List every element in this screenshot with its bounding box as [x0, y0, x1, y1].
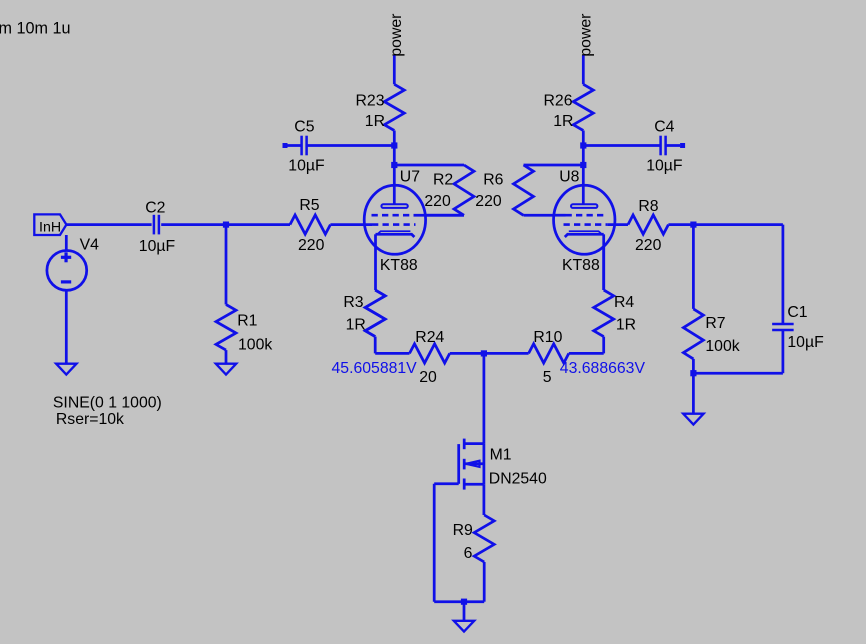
svg-text:R7: R7: [705, 315, 725, 332]
svg-text:1R: 1R: [616, 316, 636, 333]
svg-text:Rser=10k: Rser=10k: [56, 411, 124, 428]
svg-text:R6: R6: [483, 171, 503, 188]
svg-text:R24: R24: [415, 329, 444, 346]
svg-text:DN2540: DN2540: [489, 471, 547, 488]
svg-text:SINE(0 1 1000): SINE(0 1 1000): [53, 394, 162, 411]
svg-text:10µF: 10µF: [288, 157, 325, 174]
svg-text:20: 20: [419, 369, 437, 386]
svg-text:1R: 1R: [365, 113, 385, 130]
svg-text:InH: InH: [39, 219, 61, 235]
svg-text:power: power: [578, 14, 595, 57]
svg-text:R1: R1: [237, 313, 257, 330]
svg-text:C2: C2: [145, 199, 165, 216]
svg-text:10µF: 10µF: [787, 334, 824, 351]
svg-text:10µF: 10µF: [139, 238, 176, 255]
svg-text:power: power: [388, 14, 405, 57]
svg-text:R9: R9: [453, 522, 473, 539]
svg-text:C4: C4: [654, 118, 674, 135]
svg-text:R4: R4: [614, 294, 634, 311]
svg-text:6: 6: [464, 545, 473, 562]
svg-text:KT88: KT88: [562, 257, 600, 274]
svg-text:V4: V4: [80, 236, 100, 253]
svg-text:220: 220: [298, 237, 325, 254]
svg-text:R26: R26: [544, 92, 573, 109]
svg-text:220: 220: [424, 193, 451, 210]
svg-text:43.688663V: 43.688663V: [560, 360, 646, 377]
svg-text:100k: 100k: [238, 336, 272, 353]
svg-text:KT88: KT88: [380, 257, 418, 274]
svg-text:M1: M1: [490, 447, 512, 464]
svg-text:10µF: 10µF: [646, 157, 683, 174]
svg-text:220: 220: [635, 237, 662, 254]
svg-text:R3: R3: [343, 294, 363, 311]
svg-text:220: 220: [475, 193, 502, 210]
svg-text:m 10m 1u: m 10m 1u: [0, 20, 70, 38]
svg-text:100k: 100k: [705, 338, 739, 355]
svg-text:R5: R5: [299, 197, 319, 214]
svg-text:R10: R10: [533, 329, 562, 346]
svg-text:1R: 1R: [553, 113, 573, 130]
svg-text:U8: U8: [559, 169, 579, 186]
svg-text:5: 5: [543, 369, 552, 386]
svg-text:1R: 1R: [346, 316, 366, 333]
svg-text:U7: U7: [400, 169, 420, 186]
svg-text:R8: R8: [638, 198, 658, 215]
svg-text:45.605881V: 45.605881V: [332, 360, 418, 377]
svg-text:C1: C1: [787, 304, 807, 321]
svg-text:C5: C5: [294, 118, 314, 135]
svg-text:R2: R2: [433, 171, 453, 188]
svg-text:R23: R23: [356, 92, 385, 109]
